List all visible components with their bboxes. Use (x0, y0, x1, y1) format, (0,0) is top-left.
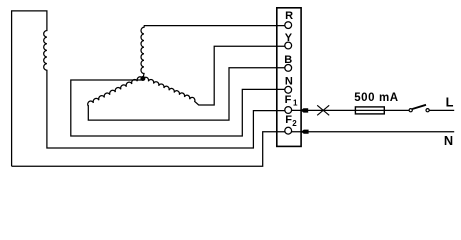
svg-text:F: F (285, 94, 292, 106)
svg-text:500 mA: 500 mA (354, 92, 399, 104)
svg-text:R: R (285, 10, 293, 22)
svg-text:N: N (444, 133, 453, 148)
svg-text:1: 1 (293, 98, 298, 107)
svg-text:2: 2 (292, 119, 297, 128)
svg-text:F: F (285, 114, 292, 126)
svg-text:L: L (446, 95, 454, 110)
svg-text:N: N (285, 76, 293, 88)
svg-text:B: B (284, 54, 292, 66)
svg-text:Y: Y (285, 32, 293, 44)
